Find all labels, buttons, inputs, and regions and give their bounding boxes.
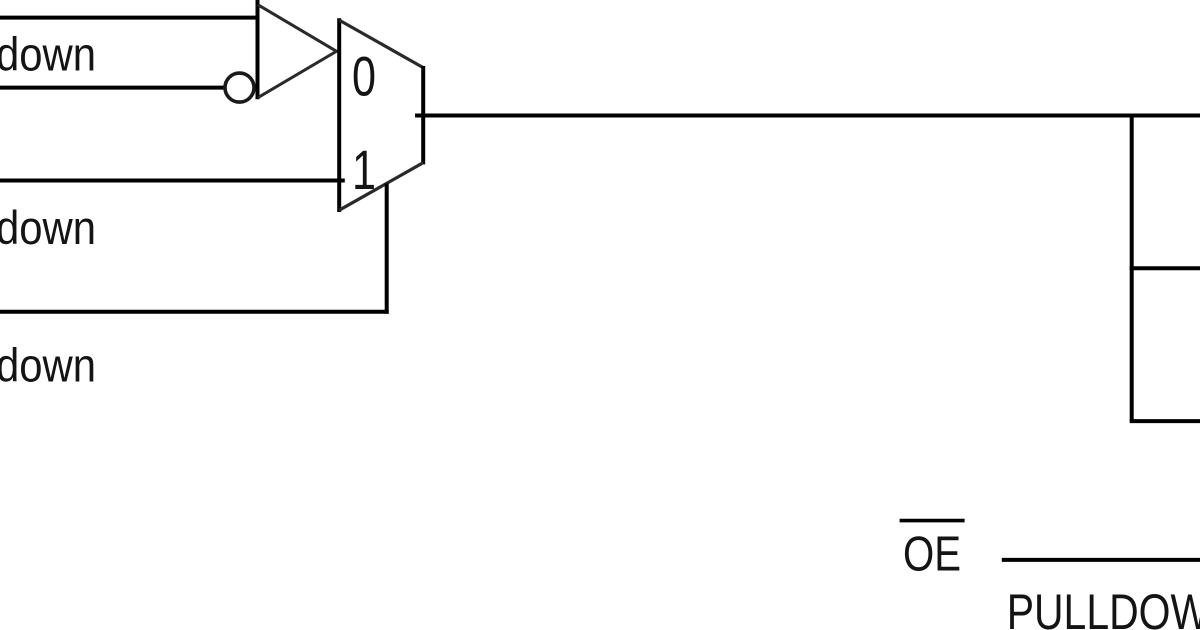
wire: mux select horizontal segment xyxy=(0,310,389,314)
mux M1 right edge xyxy=(421,66,425,164)
overline bar of OE xyxy=(900,519,965,523)
mux M1 left edge xyxy=(337,18,341,212)
mux M1 bottom slanted edge xyxy=(339,163,423,211)
wire: OE net stub xyxy=(1002,558,1200,562)
wire: lower right branch xyxy=(1130,419,1200,423)
inverter bubble (active-low enable) xyxy=(225,73,254,102)
wire: upper right branch xyxy=(1130,266,1200,270)
wire: mux 1-data input xyxy=(0,179,345,183)
svg-text:down: down xyxy=(0,28,96,81)
mux M1 top slanted edge xyxy=(339,20,423,68)
svg-text:PULLDOWN: PULLDOWN xyxy=(1007,584,1200,630)
wire: active-low enable input to bubble xyxy=(0,86,225,90)
wire: vertical drop from top into inverter xyxy=(256,0,260,99)
svg-text:OE: OE xyxy=(903,527,961,581)
svg-text:0: 0 xyxy=(352,45,376,108)
inverter U1 triangle xyxy=(258,5,337,98)
wire: mux select vertical segment xyxy=(385,184,389,314)
wire: right-side vertical bus drop xyxy=(1130,116,1134,422)
svg-text:down: down xyxy=(0,339,96,392)
svg-text:down: down xyxy=(0,201,96,254)
svg-text:1: 1 xyxy=(352,138,376,201)
wire: top input net into inverter left edge xyxy=(0,16,258,20)
wire: mux output running right xyxy=(415,114,1200,118)
